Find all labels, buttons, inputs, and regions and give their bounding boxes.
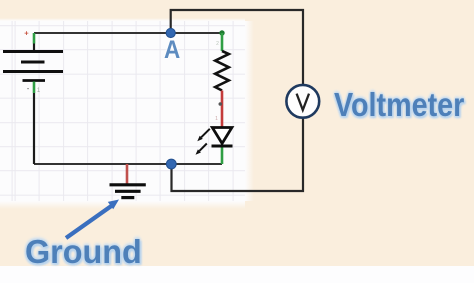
resistor R1 [215,30,229,122]
circuit editor white canvas [0,21,245,201]
Ground label [25,233,142,271]
svg-text:+: + [24,29,29,38]
wire: node A up and right to voltmeter top [171,10,303,85]
svg-text:-: - [27,86,30,93]
wire: voltmeter bottom down, left and up to bottom node [172,118,304,191]
svg-text:2: 2 [216,41,219,47]
wire: red segment between resistor and LED [219,91,223,128]
voltmeter M1 [286,85,319,118]
bottom junction node [166,159,176,169]
node A label [164,36,180,65]
wire: bottom wire from battery to LED cathode lead [34,163,222,165]
LED D1 [196,128,233,165]
wire: top wire from battery + terminal to resistor branch [34,32,222,34]
battery V1 [3,29,63,165]
Voltmeter label [334,86,464,124]
node A (junction dot) [166,28,175,37]
annotation arrow pointing to ground [66,200,119,239]
svg-text:1: 1 [37,88,41,94]
svg-text:1: 1 [215,116,218,122]
ground [110,164,146,198]
